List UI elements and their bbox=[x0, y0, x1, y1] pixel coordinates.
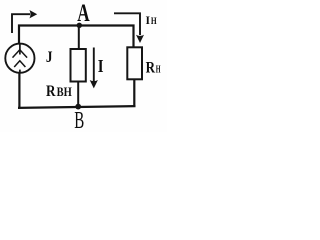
svg-text:I: I bbox=[98, 56, 104, 76]
wire middle branch lower bbox=[77, 82, 79, 108]
node dot top (A) bbox=[77, 23, 82, 28]
wire left lower (source to bottom) bbox=[18, 73, 20, 109]
wire bottom run bbox=[18, 106, 136, 108]
resistor Rvn bbox=[71, 49, 86, 82]
current source chevron 2 bbox=[14, 61, 25, 67]
svg-text:J: J bbox=[46, 49, 53, 66]
current source J circle bbox=[5, 44, 34, 73]
svg-text:ВН: ВН bbox=[57, 84, 72, 99]
current I arrow bbox=[93, 48, 95, 82]
current source chevron 1 bbox=[13, 50, 28, 58]
node dot bottom (B) bbox=[75, 104, 81, 110]
resistor Rn bbox=[127, 47, 142, 79]
wire middle branch upper bbox=[78, 25, 80, 50]
svg-text:Н: Н bbox=[156, 65, 161, 76]
wire top: left corner, top run, right corner down to Rn bbox=[19, 26, 134, 48]
current In arrow (corner with down arrowhead) bbox=[114, 13, 140, 35]
current source inner lower stub bbox=[19, 70, 21, 74]
svg-text:Н: Н bbox=[151, 17, 157, 27]
wire right branch stub bbox=[133, 79, 135, 107]
svg-text:I: I bbox=[146, 13, 151, 27]
svg-text:A: A bbox=[77, 0, 89, 27]
J direction arrow (corner with right arrowhead) bbox=[12, 14, 30, 33]
svg-text:B: B bbox=[74, 107, 84, 132]
current source inner arrow line bbox=[19, 44, 21, 55]
svg-text:R: R bbox=[146, 60, 156, 77]
svg-text:R: R bbox=[46, 83, 56, 100]
